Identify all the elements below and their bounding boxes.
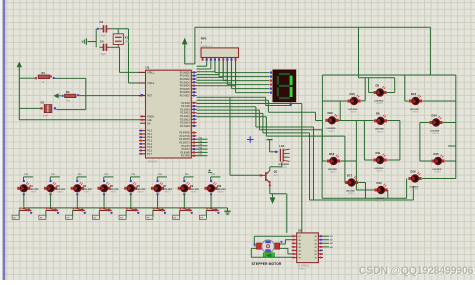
svg-text:ALE: ALE bbox=[147, 119, 152, 122]
wire LED D3 down bbox=[50, 194, 52, 208]
svg-text:P2.5/A13: P2.5/A13 bbox=[180, 118, 190, 121]
svg-text:P2.2/A10: P2.2/A10 bbox=[180, 108, 190, 111]
LED D14 bbox=[429, 113, 442, 135]
wire bus to display pin 6 bbox=[236, 61, 270, 93]
wire U2 out net 3 bbox=[323, 243, 334, 245]
svg-text:D12: D12 bbox=[377, 181, 383, 185]
resistor R2 bbox=[62, 90, 80, 102]
svg-text:LED-RED: LED-RED bbox=[163, 189, 172, 191]
svg-text:P1.0: P1.0 bbox=[147, 131, 152, 133]
LED D4 bbox=[71, 180, 93, 195]
svg-text:<TEXT>: <TEXT> bbox=[298, 268, 307, 271]
wire button 3 to label bbox=[66, 210, 73, 219]
wire P3.5 net stub bbox=[197, 148, 208, 150]
wire button 5 to label bbox=[119, 210, 126, 219]
capacitor C3 bbox=[97, 20, 111, 37]
svg-text:Q1: Q1 bbox=[274, 170, 278, 174]
U1 pin P3.2 bbox=[179, 138, 196, 141]
svg-text:P0.3/AD3: P0.3/AD3 bbox=[180, 81, 191, 84]
svg-text:SOUNDER: SOUNDER bbox=[279, 164, 290, 166]
LED D10 bbox=[204, 180, 226, 195]
svg-text:R2: R2 bbox=[66, 90, 70, 94]
LED D13 bbox=[409, 92, 422, 114]
svg-text:D17: D17 bbox=[347, 173, 353, 177]
wire P3.3 net stub bbox=[197, 141, 208, 143]
U1 pin P0.6 bbox=[180, 91, 197, 94]
svg-text:<TEXT>: <TEXT> bbox=[347, 192, 355, 195]
U1 pin P2.2 bbox=[180, 108, 196, 111]
wire bottom bus 2 bbox=[310, 186, 414, 200]
svg-text:LED-RED: LED-RED bbox=[430, 130, 439, 132]
LED D11 bbox=[373, 151, 386, 173]
wire LED D6 down bbox=[130, 194, 132, 208]
wire button 2 to label bbox=[39, 210, 46, 219]
LED D17 bbox=[345, 173, 358, 195]
svg-text:LED-RED: LED-RED bbox=[374, 100, 383, 102]
LED D20 bbox=[325, 111, 338, 133]
LED D10 bbox=[347, 92, 360, 114]
U1 pin P0.1 bbox=[180, 75, 197, 78]
wire D2 ring bbox=[359, 27, 395, 92]
svg-text:D14: D14 bbox=[432, 113, 438, 117]
svg-text:<TEXT>: <TEXT> bbox=[110, 191, 118, 194]
svg-text:<TEXT>: <TEXT> bbox=[217, 191, 225, 194]
ground bottom bbox=[224, 208, 230, 215]
wire EA rail bbox=[19, 119, 145, 121]
svg-text:<TEXT>: <TEXT> bbox=[30, 191, 38, 194]
RP1 pin 4 bbox=[214, 58, 216, 61]
wire P3.4 net stub bbox=[197, 144, 208, 146]
origin marker blue cross bbox=[247, 136, 254, 143]
wire C6 right bbox=[56, 109, 85, 111]
wire field left rail bbox=[322, 75, 347, 161]
display pin 6 marker bbox=[270, 92, 272, 94]
svg-text:LED-RED: LED-RED bbox=[410, 109, 419, 111]
svg-text:<TEXT>: <TEXT> bbox=[434, 171, 442, 174]
wire RP1 pin9 to U1 P0.7 bbox=[197, 61, 236, 86]
U1 pin P1.3 bbox=[139, 140, 153, 143]
wire RP1 pin6 to U1 P0.4 bbox=[197, 61, 224, 78]
svg-text:P1.1: P1.1 bbox=[147, 134, 152, 136]
svg-text:P0.6/AD6: P0.6/AD6 bbox=[180, 91, 191, 94]
RP1 pin 2 bbox=[206, 58, 208, 61]
wire LED D10 down bbox=[210, 194, 212, 208]
svg-text:R1: R1 bbox=[42, 71, 46, 75]
wire LED D7 down bbox=[157, 194, 159, 208]
U1 pin P3.1 bbox=[180, 135, 197, 138]
svg-text:<TEXT>: <TEXT> bbox=[328, 130, 336, 133]
svg-text:<TEXT>: <TEXT> bbox=[56, 191, 64, 194]
sheet margin strip bbox=[0, 0, 3, 280]
wire D11 left bbox=[364, 121, 373, 161]
wire net elbow LED D1 bbox=[24, 174, 34, 181]
wire bundle 1 to bus bbox=[197, 107, 314, 200]
wire D15 right bbox=[445, 160, 456, 162]
RP1 pin 8 bbox=[230, 58, 232, 61]
wire button 7 to label bbox=[173, 210, 180, 219]
svg-text:RST: RST bbox=[147, 96, 152, 98]
svg-text:LED-RED: LED-RED bbox=[432, 169, 441, 171]
svg-text:LED-RED: LED-RED bbox=[328, 169, 337, 171]
U1 pin P2.4 bbox=[180, 115, 196, 118]
U2 pin 2B bbox=[292, 239, 302, 242]
svg-text:P1.3: P1.3 bbox=[147, 141, 152, 143]
U2 pin 3B bbox=[292, 242, 302, 245]
stepper motor M1 bbox=[252, 240, 283, 266]
wire to sounder bbox=[270, 145, 278, 152]
U1 pin P2.5 bbox=[180, 118, 196, 121]
wire net elbow LED D5 bbox=[104, 174, 114, 181]
display pin 4 marker bbox=[270, 84, 272, 86]
svg-text:U2: U2 bbox=[298, 229, 302, 233]
svg-text:P1.6: P1.6 bbox=[147, 151, 152, 153]
svg-text:LED-RED: LED-RED bbox=[326, 128, 335, 130]
svg-text:LED-RED: LED-RED bbox=[348, 109, 357, 111]
display bottom pin bbox=[290, 102, 292, 106]
svg-text:<TEXT>: <TEXT> bbox=[163, 191, 171, 194]
U1 pin P1.2 bbox=[139, 136, 153, 139]
wire D20 right to D8 left bbox=[338, 101, 373, 121]
wire Q1 base net bbox=[230, 97, 260, 175]
svg-text:P0.1/AD1: P0.1/AD1 bbox=[180, 75, 191, 78]
wire LED D1 down bbox=[23, 194, 25, 208]
RP1 pin 7 bbox=[226, 58, 228, 61]
svg-text:P0.7/AD7: P0.7/AD7 bbox=[180, 95, 191, 98]
wire P3.6 net stub bbox=[197, 151, 208, 153]
display pin 5 marker bbox=[270, 88, 272, 90]
svg-text:P3.5/T1: P3.5/T1 bbox=[182, 149, 191, 151]
svg-text:10uF: 10uF bbox=[43, 115, 49, 118]
wire bundle 2 bottom bus bbox=[197, 110, 407, 198]
wire net elbow LED D3 bbox=[50, 174, 60, 181]
svg-text:D16: D16 bbox=[411, 169, 417, 173]
U1 pin EA bbox=[140, 122, 151, 125]
svg-text:D15: D15 bbox=[434, 152, 440, 156]
U2 pin 4C bbox=[315, 246, 323, 249]
wire LED D9 down bbox=[183, 194, 185, 208]
svg-text:<TEXT>: <TEXT> bbox=[411, 111, 419, 114]
U1 RST marker bbox=[141, 94, 143, 96]
U1 pin P1.6 bbox=[139, 150, 153, 153]
U1 pin XTAL2 bbox=[139, 82, 155, 85]
svg-text:P3.0/RXD: P3.0/RXD bbox=[179, 133, 190, 135]
svg-text:10k: 10k bbox=[66, 99, 71, 102]
wire sounder to Q1 collector bbox=[270, 162, 282, 171]
push button 5 bbox=[126, 208, 139, 214]
wire U2 feed bbox=[197, 104, 302, 233]
wire D18 right to D12 bbox=[340, 121, 374, 191]
wire C3 to XTAL2 net bbox=[111, 28, 129, 30]
wire R1 node bbox=[55, 77, 86, 79]
LED D16 bbox=[408, 169, 421, 191]
U1 pin PSEN bbox=[140, 116, 154, 118]
svg-text:C6: C6 bbox=[41, 100, 45, 104]
svg-text:C4: C4 bbox=[100, 39, 104, 43]
driver U2 ULN2003A bbox=[297, 229, 319, 271]
U1 pin P0.0 bbox=[180, 71, 197, 74]
svg-text:D20: D20 bbox=[328, 111, 334, 115]
display pin 1 marker bbox=[270, 72, 272, 74]
wire C4 to XTAL1 net bbox=[111, 46, 120, 48]
power bar symbol bbox=[267, 140, 273, 145]
LED D12 bbox=[374, 181, 387, 203]
U2 pin 5C bbox=[315, 249, 323, 252]
svg-text:XTAL1: XTAL1 bbox=[147, 72, 155, 75]
wire LED D5 down bbox=[103, 194, 105, 208]
svg-text:LED-RED: LED-RED bbox=[374, 168, 383, 170]
bottom bus bbox=[24, 207, 228, 209]
svg-text:ULN2003A: ULN2003A bbox=[298, 265, 310, 268]
wire U2 out net 1 bbox=[323, 236, 334, 238]
svg-text:LED-RED: LED-RED bbox=[110, 189, 119, 191]
LED D9 bbox=[178, 180, 200, 195]
wire D13 left bbox=[405, 75, 409, 101]
U1 pin XTAL1 bbox=[139, 72, 155, 75]
wire RP1 pin3 to U1 P0.1 bbox=[197, 61, 211, 69]
svg-text:LED-RED: LED-RED bbox=[217, 189, 226, 191]
svg-text:LED-RED: LED-RED bbox=[30, 189, 39, 191]
svg-text:P0.0/AD0: P0.0/AD0 bbox=[180, 71, 191, 74]
svg-text:P2.3/A11: P2.3/A11 bbox=[180, 112, 190, 115]
wire net elbow LED D10 bbox=[211, 174, 221, 181]
wire net elbow LED D9 bbox=[184, 174, 194, 181]
wire R2 to RST bbox=[79, 95, 144, 97]
push button 2 bbox=[46, 208, 59, 214]
wire net elbow LED D4 bbox=[77, 174, 87, 181]
U1 pin P3.6 bbox=[180, 151, 196, 154]
wire RP1 pin2 to U1 P0.0 bbox=[197, 61, 207, 67]
svg-text:RP1: RP1 bbox=[201, 36, 207, 40]
svg-text:LED-RED: LED-RED bbox=[137, 189, 146, 191]
svg-text:C3: C3 bbox=[100, 20, 104, 24]
svg-text:LED-RED: LED-RED bbox=[346, 190, 355, 192]
capacitor C6 bbox=[41, 100, 57, 117]
svg-text:P1.7: P1.7 bbox=[147, 154, 152, 156]
svg-text:LED-RED: LED-RED bbox=[56, 189, 65, 191]
svg-text:D18: D18 bbox=[329, 152, 335, 156]
wire D17 right to bus bbox=[358, 183, 365, 199]
wire VCC rail long bbox=[184, 47, 186, 64]
svg-text:<TEXT>: <TEXT> bbox=[190, 191, 198, 194]
transistor Q1 bbox=[260, 170, 279, 184]
wire field top rail bbox=[322, 74, 455, 76]
LED D5 bbox=[97, 180, 119, 195]
junction marker bbox=[208, 170, 212, 173]
svg-text:<TEXT>: <TEXT> bbox=[376, 170, 384, 173]
wire D13 right to rail bbox=[422, 100, 456, 102]
U2 pin 6C bbox=[315, 253, 323, 256]
svg-text:U1: U1 bbox=[146, 65, 150, 69]
wire net elbow LED D7 bbox=[157, 174, 167, 181]
svg-text:30pF: 30pF bbox=[101, 54, 107, 56]
U1 pin P0.5 bbox=[180, 88, 197, 91]
svg-text:P2.7/A15: P2.7/A15 bbox=[180, 125, 190, 128]
svg-text:P0.5/AD5: P0.5/AD5 bbox=[180, 88, 191, 91]
LED D6 bbox=[124, 180, 146, 195]
wire emitter to U2 COM bbox=[286, 194, 288, 233]
7-segment display bbox=[273, 70, 297, 103]
wire D8 right to D11 bbox=[387, 121, 400, 161]
svg-text:P1.5: P1.5 bbox=[147, 147, 152, 149]
wire D14 D15 left link bbox=[420, 123, 431, 162]
U1 pin P0.4 bbox=[180, 85, 197, 88]
U1 pin P1.5 bbox=[139, 146, 153, 149]
U2 pin 4B bbox=[292, 246, 302, 249]
svg-text:LED-RED: LED-RED bbox=[190, 189, 199, 191]
svg-text:P1.4: P1.4 bbox=[147, 144, 152, 146]
svg-text:P3.7/RD: P3.7/RD bbox=[181, 156, 190, 158]
svg-text:<TEXT>: <TEXT> bbox=[376, 130, 384, 133]
display pin 3 marker bbox=[270, 80, 272, 82]
svg-text:D11: D11 bbox=[376, 151, 381, 155]
svg-text:P2.1/A9: P2.1/A9 bbox=[181, 105, 190, 108]
wire display bottom to U1 bbox=[197, 97, 291, 105]
ground arrow down bbox=[270, 194, 276, 204]
wire bus to display pin 3 bbox=[223, 61, 269, 81]
LED D18 bbox=[327, 152, 340, 174]
U2 pin 1B bbox=[292, 235, 302, 238]
U1 pin P0.7 bbox=[180, 94, 197, 97]
svg-text:P2.0/A8: P2.0/A8 bbox=[181, 102, 190, 105]
display pin 2 marker bbox=[270, 76, 272, 78]
U1 pin P2.1 bbox=[181, 105, 196, 108]
svg-text:XTAL2: XTAL2 bbox=[147, 82, 155, 85]
svg-text:LED-RED: LED-RED bbox=[375, 198, 384, 200]
wire RP1 pin4 to U1 P0.2 bbox=[197, 61, 215, 72]
RP1 pin 6 bbox=[222, 58, 224, 61]
push button 8 bbox=[206, 208, 219, 214]
RP1 pin 3 bbox=[210, 58, 212, 61]
U2 pin 2C bbox=[315, 239, 323, 242]
svg-text:<TEXT>: <TEXT> bbox=[83, 191, 91, 194]
resistor pack RP1 bbox=[200, 36, 238, 57]
push button 4 bbox=[99, 208, 112, 214]
wire RP1 pin7 to U1 P0.5 bbox=[197, 61, 228, 81]
U2 pin 3C bbox=[315, 242, 323, 245]
U1 pin P0.3 bbox=[180, 81, 197, 84]
capacitor C4 bbox=[100, 39, 111, 55]
svg-text:+88: +88 bbox=[266, 253, 272, 257]
svg-text:12M: 12M bbox=[125, 42, 130, 44]
U1 pin P2.0 bbox=[181, 102, 196, 105]
svg-text:<TEXT>: <TEXT> bbox=[376, 102, 384, 105]
svg-text:<TEXT>: <TEXT> bbox=[377, 200, 385, 203]
ground sideways bbox=[82, 38, 96, 44]
U2 pin 7C bbox=[315, 257, 323, 260]
U1 pin P2.6 bbox=[180, 122, 196, 125]
push button 7 bbox=[180, 208, 193, 214]
LED D7 bbox=[151, 180, 173, 195]
svg-text:D10: D10 bbox=[350, 92, 356, 96]
U2 pin 7B bbox=[292, 257, 302, 260]
U1 pin P0.2 bbox=[180, 78, 197, 81]
svg-text:P3.6/WR: P3.6/WR bbox=[180, 152, 190, 154]
svg-text:30pF: 30pF bbox=[101, 35, 107, 37]
U1 pin ALE bbox=[140, 119, 152, 122]
svg-text:LS1: LS1 bbox=[279, 144, 285, 148]
U1 pin P2.7 bbox=[180, 125, 196, 128]
wire button 4 to label bbox=[92, 210, 99, 219]
svg-text:<TEXT>: <TEXT> bbox=[329, 171, 337, 174]
wire caps common bbox=[95, 29, 97, 48]
LED D8 bbox=[374, 112, 387, 134]
wire D20 feed bbox=[197, 100, 323, 120]
RP1 pin 5 bbox=[218, 58, 220, 61]
push button 6 bbox=[153, 208, 166, 214]
wire node vertical bbox=[85, 78, 87, 109]
svg-text:P2.4/A12: P2.4/A12 bbox=[180, 115, 190, 118]
wire to C6 bbox=[19, 107, 40, 109]
power arrow VCC left bbox=[17, 62, 22, 68]
svg-text:<TEXT>: <TEXT> bbox=[137, 191, 145, 194]
svg-text:P3.4/T0: P3.4/T0 bbox=[182, 146, 191, 148]
wire RP1 pin5 to U1 P0.3 bbox=[197, 61, 220, 75]
power arrow VCC mcu bbox=[182, 38, 188, 45]
svg-text:D8: D8 bbox=[376, 112, 380, 116]
watermark CSDN bbox=[359, 265, 474, 278]
svg-text:NPN: NPN bbox=[274, 175, 279, 177]
wire RP1 pin8 to U1 P0.6 bbox=[197, 61, 232, 83]
wire button 8 to label bbox=[199, 210, 206, 219]
U1 pin P1.7 bbox=[139, 153, 153, 156]
U1 pin P3.3 bbox=[179, 141, 196, 144]
svg-text:AT89C51: AT89C51 bbox=[148, 160, 159, 163]
LED D3 bbox=[44, 180, 66, 195]
svg-text:<TEXT>: <TEXT> bbox=[432, 132, 440, 135]
svg-text:LED-RED: LED-RED bbox=[409, 186, 418, 188]
resistor R1 bbox=[35, 71, 55, 84]
sheet border blue bbox=[3, 0, 6, 280]
U1 pin P1.4 bbox=[139, 143, 153, 146]
wire U2 out net 4 bbox=[323, 247, 334, 249]
sounder LS1 bbox=[275, 144, 289, 169]
U2 pin 6B bbox=[292, 253, 302, 256]
svg-text:P0.2/AD2: P0.2/AD2 bbox=[180, 78, 191, 81]
stepper motor wires bbox=[251, 236, 291, 257]
wire button 1 to label bbox=[12, 210, 19, 219]
svg-text:P2.6/A14: P2.6/A14 bbox=[180, 122, 190, 125]
svg-text:<TEXT>: <TEXT> bbox=[350, 111, 358, 114]
MCU U1 AT89C51 bbox=[146, 65, 192, 163]
svg-text:<TEXT>: <TEXT> bbox=[411, 188, 419, 191]
power arrow R2 left bbox=[53, 93, 58, 98]
U1 pin P3.4 bbox=[182, 145, 197, 148]
wire field right rail bbox=[422, 75, 456, 179]
wire D10 right bbox=[361, 78, 365, 101]
U1 pin RST bbox=[139, 96, 153, 98]
svg-text:P3.2/INT0: P3.2/INT0 bbox=[179, 139, 190, 141]
wire bus to display pin 2 bbox=[219, 61, 269, 77]
LED D1 bbox=[17, 180, 39, 195]
U2 pin 5B bbox=[292, 249, 302, 252]
svg-text:CSDN @QQ1928499906: CSDN @QQ1928499906 bbox=[359, 265, 474, 277]
LED D15 bbox=[431, 152, 444, 174]
wire Q1 emitter bbox=[269, 183, 287, 194]
wire net elbow LED D6 bbox=[131, 174, 141, 181]
wire P3.7 net stub bbox=[197, 154, 208, 156]
RP1 pin 9 bbox=[235, 58, 237, 61]
U1 pin P1.1 bbox=[139, 133, 153, 136]
wire P3.2 net stub bbox=[197, 138, 208, 140]
wire bundle 3 to bus bbox=[197, 113, 310, 200]
svg-text:STEPPER MOTOR: STEPPER MOTOR bbox=[252, 262, 282, 266]
svg-text:P1.2: P1.2 bbox=[147, 137, 152, 139]
LED D2 bbox=[373, 83, 386, 105]
U1 pin P3.7 bbox=[181, 155, 197, 158]
U1 pin P3.5 bbox=[182, 148, 197, 151]
U1 pin P2.3 bbox=[180, 112, 196, 115]
svg-text:LED-RED: LED-RED bbox=[375, 129, 384, 131]
